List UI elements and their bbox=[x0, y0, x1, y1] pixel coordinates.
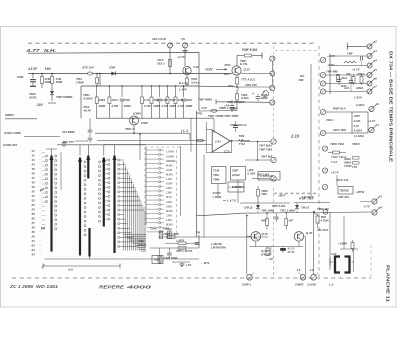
svg-text:Cxxx: Cxxx bbox=[150, 227, 157, 231]
logic box U5 bbox=[338, 187, 353, 195]
capacitor C3 bbox=[89, 118, 91, 129]
svg-text:PMF E.M4: PMF E.M4 bbox=[242, 48, 257, 52]
svg-text:WD 1451: WD 1451 bbox=[36, 284, 59, 289]
svg-text:50: 50 bbox=[32, 190, 36, 194]
svg-text:TP4: TP4 bbox=[352, 165, 358, 169]
pin P-R5 bbox=[367, 81, 372, 86]
svg-text:-4.7V →: -4.7V → bbox=[327, 63, 338, 67]
wire x272b bbox=[271, 76, 273, 86]
svg-text:TMT 1.8MA: TMT 1.8MA bbox=[280, 209, 295, 213]
wire y111 row bbox=[199, 110, 237, 113]
pin P-R4 bbox=[367, 73, 372, 78]
wire drop x237 low bbox=[236, 102, 238, 111]
svg-text:4.7MA: 4.7MA bbox=[320, 218, 329, 222]
svg-text:TTT A.B.C: TTT A.B.C bbox=[241, 78, 256, 82]
svg-text:+MTF: +MTF bbox=[278, 194, 286, 198]
terminal CHP3 bbox=[311, 275, 317, 281]
svg-text:61: 61 bbox=[32, 239, 36, 243]
resistor R14 bbox=[285, 212, 287, 214]
svg-text:+12V: +12V bbox=[205, 68, 213, 72]
resistor R21 bbox=[333, 151, 340, 154]
svg-text:M.2A: M.2A bbox=[166, 196, 172, 199]
pin P-R1 bbox=[367, 44, 372, 49]
wire bus B corner bbox=[213, 118, 215, 133]
svg-text:TPD: TPD bbox=[196, 112, 203, 116]
svg-text:10.82: 10.82 bbox=[166, 169, 173, 172]
svg-text:42MA: 42MA bbox=[355, 86, 363, 90]
svg-text:L.4.7V: L.4.7V bbox=[227, 199, 237, 203]
svg-text:42M: 42M bbox=[162, 227, 169, 231]
svg-text:Q.1F: Q.1F bbox=[262, 232, 269, 236]
bracket electrode right bbox=[345, 257, 350, 273]
pin P-R8 bbox=[369, 127, 374, 132]
svg-text:+: + bbox=[252, 92, 254, 96]
svg-text:100pF: 100pF bbox=[232, 173, 240, 177]
wire filter bus A bbox=[81, 85, 199, 87]
junction x257 bbox=[257, 141, 259, 143]
capacitor C7 bbox=[168, 248, 170, 253]
svg-text:+MTW: +MTW bbox=[356, 190, 365, 194]
svg-text:STE 104: STE 104 bbox=[82, 66, 94, 70]
inline connector J osc bbox=[87, 72, 92, 75]
transistor Q1 bbox=[232, 66, 241, 75]
svg-text:1.42V: 1.42V bbox=[354, 96, 363, 100]
svg-text:TMF (MM)MF: TMF (MM)MF bbox=[227, 100, 245, 104]
svg-text:REPERE: REPERE bbox=[99, 285, 125, 290]
svg-text:1.MA: 1.MA bbox=[166, 219, 172, 222]
svg-text:59: 59 bbox=[32, 230, 36, 234]
resistor R19 bbox=[352, 77, 355, 84]
wire filter bus B bbox=[96, 117, 214, 119]
resistor R13 bbox=[266, 212, 268, 214]
svg-text:+4.7V: +4.7V bbox=[177, 55, 186, 59]
wire y203 right bbox=[294, 202, 330, 204]
pin chain C bbox=[108, 159, 110, 161]
svg-text:(CMF) CMW: (CMF) CMW bbox=[4, 131, 22, 135]
resistor RF6 bbox=[159, 85, 161, 87]
svg-text:A.MA: A.MA bbox=[353, 119, 361, 123]
svg-text:4.2F: 4.2F bbox=[353, 124, 360, 128]
pin chain D bbox=[118, 159, 120, 161]
capacitor C4b bbox=[63, 141, 65, 144]
svg-text:100.4 E.M: 100.4 E.M bbox=[152, 37, 166, 41]
svg-text:TM: TM bbox=[196, 231, 201, 235]
svg-text:56: 56 bbox=[32, 217, 36, 221]
wire xtal stubs bbox=[329, 258, 331, 266]
svg-text:a9: a9 bbox=[376, 102, 380, 106]
chain C stubs bbox=[105, 159, 108, 161]
pin P-L9 bbox=[322, 184, 327, 189]
wire drop to filter bus bbox=[99, 73, 101, 75]
svg-text:J.0: J.0 bbox=[310, 268, 314, 272]
resistor RF4 bbox=[141, 85, 143, 87]
resistor R6 bbox=[236, 75, 238, 77]
svg-text:HO: HO bbox=[45, 66, 51, 71]
diode D2 on bus bbox=[111, 72, 115, 76]
routing mesh horizontal rungs bbox=[120, 159, 124, 161]
svg-text:CMP 1: CMP 1 bbox=[242, 282, 251, 286]
bus bar B5 bbox=[113, 156, 115, 254]
svg-text:a2: a2 bbox=[373, 40, 377, 44]
svg-text:41: 41 bbox=[31, 149, 36, 153]
svg-text:4.7M: 4.7M bbox=[143, 104, 151, 108]
svg-text:RMF M.A: RMF M.A bbox=[333, 107, 346, 111]
vertical x191 bbox=[190, 118, 192, 152]
svg-text:4.MA: 4.MA bbox=[165, 201, 172, 204]
pin P-R7 bbox=[369, 106, 374, 111]
svg-text:2MM: 2MM bbox=[123, 104, 131, 108]
svg-text:TTMA: TTMA bbox=[344, 164, 352, 168]
logic box TMP bbox=[152, 256, 163, 264]
resistor R18 diagonal bbox=[344, 61, 356, 63]
svg-text:4.7V: 4.7V bbox=[200, 106, 208, 110]
resistor R8 top bbox=[237, 87, 239, 91]
svg-text:ZC 1 2696: ZC 1 2696 bbox=[9, 284, 34, 289]
pin P-R6 bbox=[367, 89, 372, 94]
wire x199 tee bbox=[198, 235, 200, 248]
svg-text:17MM: 17MM bbox=[76, 80, 84, 84]
pin P-R9 bbox=[372, 199, 377, 204]
wire x311 long riser bbox=[310, 64, 312, 196]
resistor R9 bbox=[167, 236, 175, 239]
svg-text:CT2: CT2 bbox=[224, 149, 230, 153]
wire y87 to pin bbox=[237, 86, 272, 88]
dashed stub y193 bbox=[274, 192, 316, 194]
svg-text:1.MA: 1.MA bbox=[166, 178, 172, 181]
svg-text:CMF: CMF bbox=[109, 66, 116, 70]
svg-text:CMF: CMF bbox=[17, 75, 24, 79]
pin P-L6 bbox=[320, 130, 325, 135]
svg-text:Q.4F: Q.4F bbox=[306, 231, 313, 235]
wire pin row y65 bbox=[330, 65, 367, 67]
svg-text:-4.7V: -4.7V bbox=[363, 205, 371, 209]
svg-text:TMP A.MA: TMP A.MA bbox=[272, 204, 285, 208]
capacitor C5 bbox=[230, 105, 235, 107]
svg-text:4M2: 4M2 bbox=[260, 219, 267, 223]
resistor R24 bbox=[168, 231, 170, 238]
handwritten squiggle note bbox=[262, 91, 268, 97]
wire Q4 base bbox=[247, 235, 251, 237]
svg-text:54: 54 bbox=[32, 208, 36, 212]
logic box U2b bbox=[231, 167, 246, 181]
svg-text:TMM: TMM bbox=[213, 178, 220, 182]
logic box U3 bbox=[258, 172, 280, 181]
svg-text:(CMA): (CMA) bbox=[138, 243, 146, 247]
svg-text:TMP: TMP bbox=[169, 98, 175, 102]
svg-text:62: 62 bbox=[32, 244, 36, 248]
svg-text:L1.M2A: L1.M2A bbox=[354, 134, 364, 138]
svg-text:47W: 47W bbox=[223, 63, 231, 67]
wire y248 bbox=[150, 247, 199, 249]
resistor RF8 bbox=[175, 85, 177, 87]
svg-text:47M4: 47M4 bbox=[356, 72, 364, 76]
pin P-L1 bbox=[320, 57, 325, 62]
resistor R11 bbox=[178, 247, 186, 249]
wire xtal top bbox=[340, 248, 358, 250]
wire x337 drop bbox=[336, 175, 338, 186]
pin P-L8 bbox=[322, 168, 327, 173]
capacitor C6 bbox=[159, 248, 161, 256]
svg-text:Q.1F: Q.1F bbox=[244, 68, 251, 72]
svg-text:-MTF: -MTF bbox=[354, 114, 361, 118]
svg-text:A.36A: A.36A bbox=[246, 172, 255, 176]
wire bus A extension right bbox=[199, 85, 237, 88]
svg-text:437 MMF: 437 MMF bbox=[61, 130, 75, 134]
resistor R27 bbox=[337, 75, 340, 82]
svg-text:A.MAX: A.MAX bbox=[82, 97, 94, 101]
capacitor C10 dark bbox=[282, 247, 284, 248]
resistor RF7 bbox=[167, 85, 169, 87]
pin TP4 circle bbox=[323, 209, 328, 214]
svg-text:-30V: -30V bbox=[36, 103, 44, 107]
capacitor C12 bbox=[360, 56, 362, 60]
svg-text:45: 45 bbox=[31, 167, 36, 171]
svg-text:42F: 42F bbox=[288, 219, 294, 223]
svg-text:+4.7V: +4.7V bbox=[368, 119, 376, 123]
wire 4.77 NH line bbox=[28, 51, 199, 54]
pin P-R3 bbox=[367, 63, 372, 68]
wire Q5 base bbox=[304, 235, 306, 237]
pin P-A bbox=[270, 56, 275, 61]
svg-text:Δ 4.7V: Δ 4.7V bbox=[178, 81, 189, 85]
pin P-L3 bbox=[320, 81, 325, 86]
svg-text:+4.7V: +4.7V bbox=[331, 171, 340, 175]
resistor RF1 bbox=[96, 85, 98, 87]
transistor Q2 bbox=[183, 66, 191, 74]
wire r-block rows bbox=[326, 74, 330, 76]
svg-text:M.MA: M.MA bbox=[166, 164, 173, 167]
svg-text:T.4.2: T.4.2 bbox=[331, 160, 338, 164]
svg-text:TMP2: TMP2 bbox=[352, 142, 360, 146]
routing mesh verticals bbox=[123, 161, 125, 251]
diode D4 bbox=[296, 203, 298, 205]
resistor R7 bbox=[236, 90, 238, 94]
pin P-B bbox=[270, 85, 275, 90]
bracket electrode left bbox=[335, 257, 340, 273]
wire y112 row bbox=[326, 111, 352, 113]
resistor R3 bbox=[169, 60, 172, 67]
svg-text:E.74L: E.74L bbox=[240, 62, 248, 66]
capacitor C8 bbox=[196, 237, 198, 240]
svg-text:b3: b3 bbox=[379, 194, 383, 198]
svg-text:TM2: TM2 bbox=[321, 215, 327, 219]
svg-text:J.6: J.6 bbox=[297, 268, 301, 272]
dashed pin column drop bbox=[273, 188, 275, 277]
svg-text:M.MA: M.MA bbox=[166, 210, 173, 213]
svg-text:TM2UE: TM2UE bbox=[340, 189, 349, 193]
dashed chassis boundary right bbox=[318, 46, 320, 277]
svg-text:CMP2: CMP2 bbox=[295, 282, 304, 286]
svg-text:TMP L.MTTA: TMP L.MTTA bbox=[176, 249, 192, 253]
resistor R22 inline bbox=[211, 109, 217, 112]
svg-text:3.Kxx: 3.Kxx bbox=[191, 80, 199, 84]
svg-text:CMP: CMP bbox=[232, 169, 238, 173]
bus bar B6 bbox=[88, 228, 90, 257]
resistor R1 bbox=[41, 73, 43, 75]
svg-text:b1: b1 bbox=[376, 123, 380, 127]
dashed module box top bbox=[145, 146, 180, 148]
svg-text:+4.7V: +4.7V bbox=[352, 68, 361, 72]
wire dimension line bbox=[43, 265, 120, 267]
wire pin row y75 bbox=[330, 74, 367, 76]
svg-text:+CMW: +CMW bbox=[338, 242, 347, 246]
resistor R23 bbox=[160, 231, 162, 238]
dashed link y194 bbox=[274, 193, 319, 195]
svg-text:46: 46 bbox=[31, 172, 36, 176]
wire right block bus bbox=[329, 54, 331, 95]
wire x272 bbox=[271, 61, 273, 71]
svg-text:TTx2: TTx2 bbox=[239, 142, 246, 146]
wire pin C rows bbox=[240, 141, 271, 143]
resistor R16 right bbox=[313, 211, 315, 213]
wire Q1 collector bbox=[236, 56, 238, 67]
wire bus left edge bbox=[80, 86, 82, 118]
logic box U4 bbox=[352, 112, 368, 133]
wire x204 to y237 bbox=[203, 172, 205, 237]
svg-text:2.MA: 2.MA bbox=[165, 214, 172, 217]
svg-text:60: 60 bbox=[32, 235, 36, 239]
svg-text:48: 48 bbox=[31, 181, 36, 185]
svg-text:L.MM2: L.MM2 bbox=[213, 195, 222, 199]
svg-text:L.MTA: L.MTA bbox=[176, 239, 184, 243]
svg-text:47M: 47M bbox=[176, 98, 183, 102]
wire to P-R9 bbox=[360, 201, 372, 203]
svg-text:TMW 2.47MA: TMW 2.47MA bbox=[219, 106, 237, 110]
svg-text:(CMP) MA: (CMP) MA bbox=[3, 143, 17, 147]
svg-text:↓ -4V: ↓ -4V bbox=[266, 257, 274, 261]
svg-text:TM.10: TM.10 bbox=[301, 206, 309, 210]
svg-text:2.2062: 2.2062 bbox=[306, 282, 317, 286]
capacitor C11 bbox=[338, 77, 340, 79]
svg-text:b4: b4 bbox=[379, 205, 383, 209]
svg-text:TMW TMA: TMW TMA bbox=[330, 142, 344, 146]
dashed module box left bbox=[144, 147, 146, 237]
svg-text:L.MT2UE: L.MT2UE bbox=[230, 185, 242, 189]
pin P-A2 on bus bbox=[270, 71, 275, 76]
svg-text:CMU 100 uF: CMU 100 uF bbox=[230, 123, 247, 127]
wire Q3 down bbox=[133, 125, 135, 133]
svg-text:A.1.3: A.1.3 bbox=[287, 247, 295, 251]
dashed module horizontal y50.3 bbox=[275, 49, 319, 51]
svg-text:MMF: MMF bbox=[261, 96, 268, 100]
wire bar1 top stub bbox=[51, 149, 53, 156]
wire header to x146 bbox=[145, 148, 147, 226]
op-amp U1 bbox=[212, 130, 230, 152]
wire off-page y119 bbox=[5, 118, 37, 120]
pin chain C0 bbox=[98, 161, 100, 163]
svg-text:a5: a5 bbox=[373, 68, 377, 72]
wire y133 row bbox=[326, 132, 352, 134]
pin P-C3 bbox=[271, 176, 276, 181]
wire x140 drop bbox=[139, 134, 141, 160]
pin P-C2 bbox=[271, 157, 276, 162]
chain E stubs bbox=[146, 149, 159, 151]
svg-text:-47V: -47V bbox=[227, 84, 234, 88]
svg-text:4.5 2F: 4.5 2F bbox=[27, 67, 38, 71]
svg-text:47W 100: 47W 100 bbox=[244, 83, 257, 87]
svg-text:49: 49 bbox=[31, 185, 36, 189]
wire bar header bbox=[57, 144, 146, 146]
svg-text:M.MA: M.MA bbox=[166, 173, 173, 176]
resistor R15 bbox=[266, 248, 269, 256]
svg-text:44: 44 bbox=[31, 163, 36, 167]
resistor R4 bbox=[186, 75, 188, 78]
resistor RF2 bbox=[109, 85, 111, 87]
terminal CHP2 bbox=[300, 275, 306, 281]
pin P-C1 bbox=[271, 139, 276, 144]
svg-text:2L1F8: 2L1F8 bbox=[260, 249, 269, 253]
capacitor C4 bbox=[89, 134, 91, 137]
wire x170 bbox=[169, 48, 171, 74]
svg-text:TMF: TMF bbox=[347, 52, 353, 56]
svg-text:+4.7V →: +4.7V → bbox=[327, 54, 339, 58]
svg-text:47: 47 bbox=[31, 176, 36, 180]
svg-text:TMP OMME: TMP OMME bbox=[56, 95, 73, 99]
bus bar B2 bbox=[79, 158, 81, 256]
svg-text:TMT MA: TMT MA bbox=[261, 155, 272, 159]
svg-text:4.1F: 4.1F bbox=[192, 65, 199, 69]
resistor R10 bbox=[178, 242, 186, 244]
pin P-osc top2 with ground bbox=[183, 43, 188, 48]
svg-text:→ MTF: → MTF bbox=[200, 261, 210, 265]
transistor Q5 bbox=[294, 232, 304, 242]
capacitor C1 bbox=[32, 74, 34, 79]
svg-text:3MM: 3MM bbox=[56, 80, 63, 84]
pin chain A bbox=[45, 155, 47, 157]
wire grounds y262 bbox=[172, 261, 190, 263]
wire y237 bbox=[158, 236, 268, 238]
wire bus A corner down bbox=[183, 85, 185, 87]
resistor RF5 bbox=[151, 85, 153, 87]
svg-text:4.77: 4.77 bbox=[25, 48, 40, 53]
svg-text:a3: a3 bbox=[373, 49, 377, 53]
wire box drops bbox=[217, 184, 219, 197]
resistor R5 horizontal bbox=[237, 55, 244, 57]
capacitor C13 bbox=[350, 75, 352, 80]
svg-text:TMF MMA: TMF MMA bbox=[198, 98, 212, 102]
svg-text:TMF 2MM: TMF 2MM bbox=[261, 209, 275, 213]
resistor R28 on drop bbox=[96, 73, 98, 75]
logic box U3b bbox=[228, 182, 244, 192]
svg-text:LMTMTMA: LMTMTMA bbox=[211, 246, 226, 250]
svg-text:M.A: M.A bbox=[224, 72, 230, 76]
dashed module vertical x273.5 bbox=[273, 46, 275, 139]
resistor R26 bbox=[353, 162, 360, 165]
op-amp input wire upper bbox=[97, 140, 206, 142]
svg-text:42MA: 42MA bbox=[343, 160, 351, 164]
svg-text:A.MA: A.MA bbox=[165, 183, 173, 186]
bus bar B3 bbox=[87, 156, 89, 179]
op-amp input wire lower bbox=[104, 144, 212, 146]
wire main bus right segment bbox=[241, 73, 272, 75]
wire pin row y56 bbox=[330, 55, 367, 57]
pin P-L7 bbox=[322, 146, 327, 151]
wire bar B6 link bbox=[89, 257, 91, 260]
pin P-B2 bbox=[270, 100, 275, 105]
svg-text:1.MA: 1.MA bbox=[166, 192, 172, 195]
svg-text:4.7L: 4.7L bbox=[143, 98, 150, 102]
svg-text:MD TTY: MD TTY bbox=[63, 140, 75, 144]
logic box U2a bbox=[212, 167, 227, 184]
svg-text:TMF: TMF bbox=[153, 98, 159, 102]
wire op-amp loop riser bbox=[205, 122, 207, 130]
svg-text:DMDMA: DMDMA bbox=[166, 160, 176, 163]
pin chain E bbox=[159, 149, 161, 151]
svg-text:43: 43 bbox=[31, 158, 36, 162]
svg-text:2-M2A: 2-M2A bbox=[355, 103, 365, 107]
resistor R17 xtal bbox=[351, 243, 354, 249]
svg-text:TMA: TMA bbox=[261, 192, 267, 196]
